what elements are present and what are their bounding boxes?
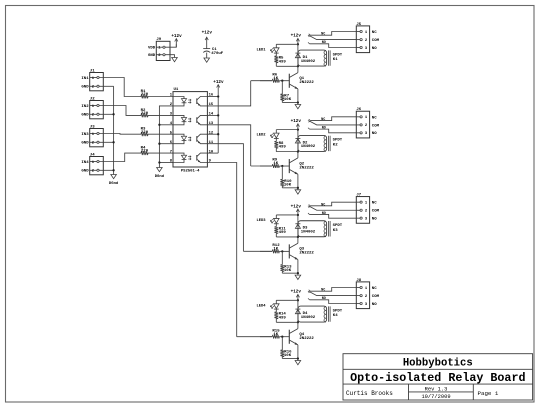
resistor R8 499 xyxy=(274,139,286,152)
resistor R5 499 xyxy=(274,53,286,66)
svg-text:J5: J5 xyxy=(356,23,361,27)
resistor R12 1K on base xyxy=(260,244,289,253)
power +12v channel 3 xyxy=(291,204,302,215)
resistor R3 220 xyxy=(141,128,149,137)
wire channel 2 base from riser xyxy=(251,165,272,167)
svg-text:11: 11 xyxy=(209,141,214,145)
svg-text:K3: K3 xyxy=(333,229,338,233)
svg-text:Opto-isolated Relay Board: Opto-isolated Relay Board xyxy=(350,371,525,385)
wire collector node to Q2 xyxy=(297,152,299,158)
relay K4 switch contacts xyxy=(308,287,356,303)
wire R1 to U1 pin 1 xyxy=(148,96,173,98)
svg-text:SPDT: SPDT xyxy=(333,224,343,228)
ground at C1 xyxy=(204,58,210,62)
relay K2 coil xyxy=(298,135,343,151)
svg-text:7: 7 xyxy=(170,150,173,154)
svg-text:2: 2 xyxy=(365,124,368,128)
resistor R4 220 xyxy=(141,147,149,156)
wire U1 pin4 to DGnd bus xyxy=(158,124,173,126)
svg-text:2N2222: 2N2222 xyxy=(299,81,314,85)
svg-text:4: 4 xyxy=(170,122,173,126)
svg-text:NO: NO xyxy=(372,303,377,307)
svg-text:1N4002: 1N4002 xyxy=(301,230,316,234)
svg-text:GND: GND xyxy=(81,170,89,174)
svg-text:10K: 10K xyxy=(284,269,292,273)
wire +12v node channel 4 xyxy=(297,299,299,306)
ground at Q4 emitter xyxy=(295,360,301,364)
svg-text:LED3: LED3 xyxy=(256,219,266,223)
ground at Q1 emitter xyxy=(295,105,301,109)
svg-text:10/7/2009: 10/7/2009 xyxy=(421,394,450,400)
svg-text:499: 499 xyxy=(279,60,287,64)
svg-text:K2: K2 xyxy=(333,144,338,148)
connector J7 xyxy=(356,194,379,224)
svg-text:NO: NO xyxy=(372,218,377,222)
svg-text:COM: COM xyxy=(372,295,380,299)
power +12v channel 4 xyxy=(291,290,302,301)
svg-text:1N4002: 1N4002 xyxy=(301,316,316,320)
resistor R7 10K xyxy=(280,80,291,103)
svg-text:NC: NC xyxy=(321,203,325,207)
svg-text:+12v: +12v xyxy=(291,204,302,209)
svg-text:13: 13 xyxy=(209,122,214,126)
resistor R16 10K xyxy=(280,336,292,359)
wire U1 collector bus xyxy=(207,95,219,153)
svg-text:2: 2 xyxy=(365,210,368,214)
resistor R10 10K xyxy=(280,165,292,188)
svg-text:K4: K4 xyxy=(333,314,338,318)
wire emitter to ground channel 3 xyxy=(282,260,299,276)
svg-text:NC: NC xyxy=(372,31,377,35)
power +12v bus at U1 xyxy=(213,80,224,97)
transistor Q4 2N2222 xyxy=(289,329,314,345)
svg-text:GND: GND xyxy=(81,142,89,146)
connector J2 xyxy=(81,98,103,119)
wire U1 pin6 to DGnd bus xyxy=(158,143,173,145)
connector J6 xyxy=(356,108,379,138)
svg-text:220: 220 xyxy=(141,150,149,154)
wire U1 pin8 to DGnd bus xyxy=(158,161,173,163)
wire +12v node channel 2 xyxy=(297,128,299,135)
svg-text:8: 8 xyxy=(170,160,173,164)
svg-text:10K: 10K xyxy=(284,184,292,188)
power +12v channel 1 xyxy=(291,34,302,45)
wire U1 pin2 to DGnd bus xyxy=(159,106,173,168)
svg-text:2: 2 xyxy=(365,39,368,43)
ground at J9 xyxy=(172,58,178,62)
svg-text:Rev 1.3: Rev 1.3 xyxy=(425,387,448,393)
svg-text:J7: J7 xyxy=(356,194,361,198)
relay K1 switch contacts xyxy=(308,32,356,48)
wire emitter to ground channel 1 xyxy=(282,89,299,105)
diode D2 1N4002 xyxy=(295,135,315,151)
wire J2 GND to bus xyxy=(99,113,115,115)
svg-text:10: 10 xyxy=(209,150,214,154)
svg-text:K1: K1 xyxy=(333,58,338,62)
svg-text:COM: COM xyxy=(372,39,380,43)
svg-text:499: 499 xyxy=(279,231,287,235)
diode D1 1N4002 xyxy=(295,50,315,66)
svg-text:15: 15 xyxy=(209,103,214,107)
svg-text:IN3: IN3 xyxy=(81,133,89,137)
svg-text:NC: NC xyxy=(321,289,325,293)
svg-text:10K: 10K xyxy=(284,354,292,358)
power +12v at J9 xyxy=(171,34,182,47)
svg-text:J8: J8 xyxy=(356,279,361,283)
diode D3 1N4002 xyxy=(295,221,315,237)
svg-text:NO: NO xyxy=(322,212,326,216)
ground at Q2 emitter xyxy=(295,190,301,194)
svg-text:IN4: IN4 xyxy=(81,161,89,165)
LED LED1 xyxy=(256,44,297,53)
svg-text:1: 1 xyxy=(365,201,368,205)
svg-text:J2: J2 xyxy=(90,98,95,102)
svg-text:Page 1: Page 1 xyxy=(478,390,499,397)
wire J3 IN3 to R3 xyxy=(99,133,141,136)
wire R2 to U1 pin 3 xyxy=(148,114,173,116)
svg-text:NC: NC xyxy=(372,287,377,291)
resistor R14 499 xyxy=(274,309,286,322)
wire U1 pin 9 to channel 4 base xyxy=(207,163,236,337)
ground DGnd at J connectors xyxy=(109,175,119,187)
svg-text:NO: NO xyxy=(372,47,377,51)
svg-text:9: 9 xyxy=(209,160,212,164)
svg-text:GND: GND xyxy=(81,114,89,118)
svg-text:499: 499 xyxy=(279,146,287,150)
wire R3 to U1 pin 5 xyxy=(148,133,173,135)
svg-text:2N2222: 2N2222 xyxy=(299,337,314,341)
power +12v at C1 xyxy=(202,31,213,49)
svg-text:NO: NO xyxy=(372,132,377,136)
wire collector node to Q4 xyxy=(297,322,299,328)
svg-text:PS2501-4: PS2501-4 xyxy=(181,170,200,174)
svg-text:J6: J6 xyxy=(356,108,361,112)
svg-text:J1: J1 xyxy=(90,70,95,74)
ground at Q3 emitter xyxy=(295,275,301,279)
svg-text:220: 220 xyxy=(141,112,149,116)
transistor Q3 2N2222 xyxy=(289,243,314,259)
svg-text:DGnd: DGnd xyxy=(155,174,165,179)
LED LED2 xyxy=(256,130,297,139)
LED LED3 xyxy=(256,215,297,224)
connector J9 xyxy=(148,38,170,60)
wire J1 GND to bus xyxy=(99,85,114,87)
svg-text:IN2: IN2 xyxy=(81,105,89,109)
wire U1 pin 13 to channel 2 base xyxy=(207,125,250,166)
svg-text:LED1: LED1 xyxy=(256,48,266,52)
svg-text:16: 16 xyxy=(209,94,214,98)
ground DGnd at U1 xyxy=(155,168,165,180)
svg-text:3: 3 xyxy=(365,47,368,51)
svg-text:+12v: +12v xyxy=(202,31,213,36)
wire +12v node channel 3 xyxy=(297,214,299,221)
wire LED branch to collector node channel 4 xyxy=(276,321,299,323)
svg-text:3: 3 xyxy=(365,132,368,136)
connector J5 xyxy=(356,23,379,53)
connector J4 xyxy=(81,154,103,175)
svg-text:14: 14 xyxy=(209,113,214,117)
svg-text:NO: NO xyxy=(322,297,326,301)
svg-text:2N2222: 2N2222 xyxy=(299,252,314,256)
svg-text:+12v: +12v xyxy=(291,119,302,124)
capacitor C1 470uF xyxy=(203,48,224,58)
svg-text:5: 5 xyxy=(170,131,173,135)
svg-text:SPDT: SPDT xyxy=(333,309,343,313)
wire J9 pin2 to ground xyxy=(165,55,175,58)
svg-text:LED2: LED2 xyxy=(256,134,266,138)
svg-text:J9: J9 xyxy=(156,38,161,42)
svg-text:SPDT: SPDT xyxy=(333,53,343,57)
svg-text:220: 220 xyxy=(141,93,149,97)
svg-text:GND: GND xyxy=(148,54,156,58)
relay K2 switch contacts xyxy=(308,117,356,133)
svg-text:1N4002: 1N4002 xyxy=(301,60,316,64)
svg-text:LED4: LED4 xyxy=(256,304,266,308)
svg-text:2: 2 xyxy=(365,295,368,299)
svg-text:6: 6 xyxy=(170,141,173,145)
svg-text:499: 499 xyxy=(279,316,287,320)
transistor Q1 2N2222 xyxy=(289,73,314,89)
svg-text:3: 3 xyxy=(365,303,368,307)
wire collector node to Q1 xyxy=(297,66,299,72)
svg-text:SPDT: SPDT xyxy=(333,139,343,143)
svg-text:1K: 1K xyxy=(273,333,278,337)
wire J3 GND to bus xyxy=(99,141,115,143)
svg-text:NC: NC xyxy=(372,202,377,206)
connector J1 xyxy=(81,70,103,91)
svg-text:1N4002: 1N4002 xyxy=(301,145,316,149)
svg-text:VDD: VDD xyxy=(148,47,156,51)
svg-text:2: 2 xyxy=(170,103,173,107)
svg-text:3: 3 xyxy=(170,113,173,117)
relay K3 switch contacts xyxy=(308,202,356,218)
svg-text:1K: 1K xyxy=(273,247,278,251)
svg-text:COM: COM xyxy=(372,210,380,214)
svg-text:470uF: 470uF xyxy=(211,52,224,56)
wire LED branch to collector node channel 1 xyxy=(276,65,299,67)
svg-text:IN1: IN1 xyxy=(81,77,89,81)
wire channel 3 base from riser xyxy=(243,250,272,252)
svg-text:NO: NO xyxy=(322,41,326,45)
wire J4 IN4 to R4 xyxy=(99,153,141,161)
wire U1 pin 11 to channel 3 base xyxy=(207,144,243,252)
resistor R6 1K on base xyxy=(260,73,289,82)
op-amp U1 PS2501-4 opto-isolator xyxy=(170,88,214,174)
svg-text:12: 12 xyxy=(209,131,214,135)
svg-text:NC: NC xyxy=(372,116,377,120)
wire emitter to ground channel 2 xyxy=(282,174,299,190)
resistor R13 10K xyxy=(280,250,292,273)
svg-text:J3: J3 xyxy=(90,126,95,130)
svg-text:DGnd: DGnd xyxy=(109,181,119,186)
svg-text:J4: J4 xyxy=(90,154,95,158)
svg-text:GND: GND xyxy=(81,86,89,90)
wire collector node to Q3 xyxy=(297,237,299,243)
svg-text:+12v: +12v xyxy=(291,290,302,295)
svg-text:+12v: +12v xyxy=(213,80,224,85)
svg-text:3: 3 xyxy=(365,217,368,221)
relay K3 coil xyxy=(298,221,343,237)
wire J2 IN2 to R2 xyxy=(99,106,141,116)
wire J9 pin1 to +12v xyxy=(165,44,176,47)
resistor R9 1K on base xyxy=(260,159,289,168)
title block xyxy=(343,354,533,400)
svg-text:1K: 1K xyxy=(273,77,278,81)
resistor R1 220 xyxy=(141,90,149,99)
resistor R2 220 xyxy=(141,109,149,118)
svg-text:NC: NC xyxy=(321,33,325,37)
svg-text:COM: COM xyxy=(372,124,380,128)
wire channel 1 base from riser xyxy=(251,80,272,82)
wire R4 to U1 pin 7 xyxy=(148,152,173,154)
svg-text:+12v: +12v xyxy=(171,34,182,39)
relay K1 coil xyxy=(298,50,343,66)
resistor R11 499 xyxy=(274,224,286,237)
power +12v channel 2 xyxy=(291,119,302,130)
connector J3 xyxy=(81,126,103,147)
svg-text:U1: U1 xyxy=(174,88,179,92)
LED LED4 xyxy=(256,300,297,309)
svg-text:220: 220 xyxy=(141,131,149,135)
resistor R15 1K on base xyxy=(260,329,289,338)
svg-text:Curtis Brooks: Curtis Brooks xyxy=(346,390,393,397)
wire channel 4 base from riser xyxy=(237,336,272,338)
wire J1 IN1 to R1 xyxy=(99,78,141,97)
svg-text:NC: NC xyxy=(321,118,325,122)
transistor Q2 2N2222 xyxy=(289,158,314,174)
wire U1 pin 15 to channel 1 base xyxy=(207,81,250,106)
wire ground bus DGnd xyxy=(113,86,115,174)
svg-text:1: 1 xyxy=(365,31,368,35)
svg-text:Hobbybotics: Hobbybotics xyxy=(403,358,473,370)
svg-text:1: 1 xyxy=(170,94,173,98)
svg-text:1: 1 xyxy=(365,287,368,291)
wire +12v node channel 1 xyxy=(297,43,299,50)
svg-text:1: 1 xyxy=(365,116,368,120)
diode D4 1N4002 xyxy=(295,306,315,322)
wire LED branch to collector node channel 3 xyxy=(276,236,299,238)
svg-text:10K: 10K xyxy=(284,98,292,102)
wire LED branch to collector node channel 2 xyxy=(276,150,299,152)
svg-text:+12v: +12v xyxy=(291,34,302,39)
connector J8 xyxy=(356,279,379,309)
svg-text:1K: 1K xyxy=(273,162,278,166)
wire J4 GND to bus xyxy=(99,169,115,171)
svg-text:NO: NO xyxy=(322,127,326,131)
svg-text:2N2222: 2N2222 xyxy=(299,166,314,170)
relay K4 coil xyxy=(298,306,343,322)
wire emitter to ground channel 4 xyxy=(282,345,299,361)
